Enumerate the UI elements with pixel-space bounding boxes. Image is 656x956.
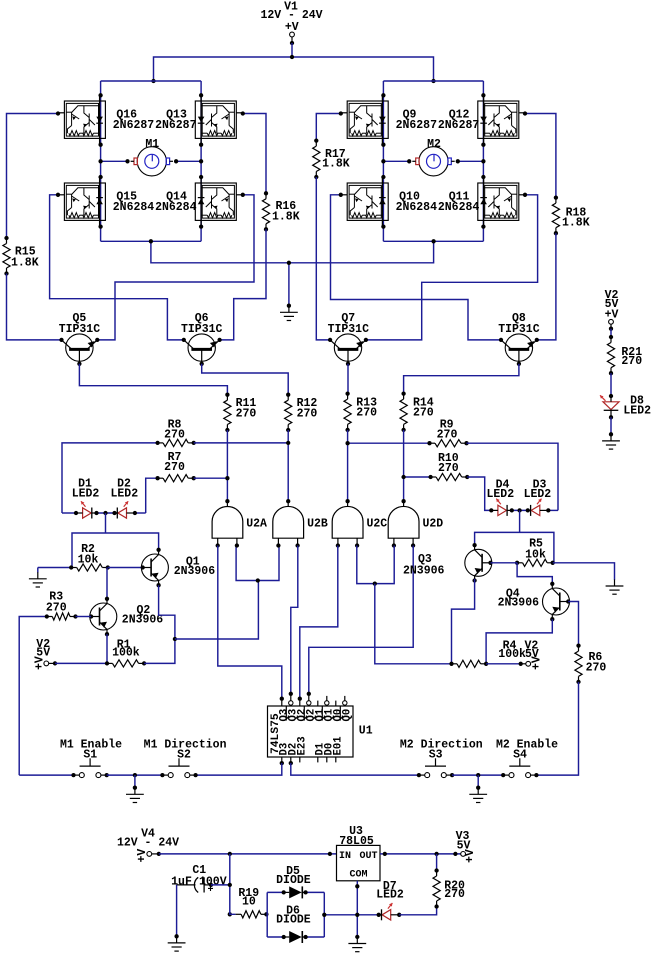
junction dots left rails — [98, 93, 203, 229]
svg-text:LED2: LED2 — [72, 488, 100, 501]
wire Q16 base to R15 — [7, 114, 59, 239]
resistor R16 1.8K — [262, 191, 299, 231]
wire diode right rail — [323, 892, 325, 937]
ground D8 — [602, 432, 620, 449]
wire U1 D2 to S3 — [291, 763, 419, 775]
wire U2D in2 to U1 Q2bar — [309, 546, 413, 694]
svg-text:U1: U1 — [359, 725, 373, 738]
wire U2C in2 / U2D in1 bus — [357, 546, 394, 584]
ground S1-S2 — [126, 775, 144, 802]
wire +V stem — [291, 43, 293, 57]
wire left bridge left rail — [100, 81, 102, 241]
wire Q10 base to Q8 collector — [331, 195, 502, 340]
svg-text:270: 270 — [356, 407, 377, 420]
junction Q14 base — [241, 193, 245, 197]
AND gate U2C — [332, 506, 363, 538]
svg-text:M1: M1 — [145, 138, 159, 151]
transistor Q7 TIP31C — [334, 334, 361, 361]
wire Q6 base to R12 — [202, 364, 289, 395]
ground COM — [348, 935, 366, 952]
wire D4-D3 link — [512, 509, 528, 511]
wire LED row right — [135, 512, 146, 514]
svg-text:S4: S4 — [513, 749, 527, 762]
junction Q16 base — [56, 111, 60, 115]
svg-text:U2A: U2A — [246, 518, 267, 531]
svg-text:2N6284: 2N6284 — [396, 201, 438, 214]
svg-text:OUT: OUT — [359, 851, 377, 862]
svg-text:E01: E01 — [333, 736, 345, 755]
wire R13 col to R9 — [348, 442, 430, 444]
svg-text:S1: S1 — [83, 749, 97, 762]
junction ground bus — [149, 239, 436, 265]
wire V2col to R21 — [610, 329, 612, 337]
resistor R2 10k — [69, 543, 110, 571]
svg-text:TIP31C: TIP31C — [59, 323, 101, 336]
junction S3-S4 ground — [476, 773, 480, 777]
junction C1 top — [228, 852, 332, 856]
wire R10 right drop to D4 — [467, 477, 491, 510]
wire Q7 base to R13 — [347, 364, 349, 394]
wire motor M2 left — [383, 160, 410, 162]
svg-text:1.8K: 1.8K — [272, 210, 300, 223]
wire R5 left to Q4 collector — [517, 563, 552, 584]
wire Q9 base to R17 — [316, 114, 341, 141]
transistor Q14 2N6284 — [195, 177, 243, 227]
wire LED mid stem right — [519, 510, 521, 532]
svg-text:LED2: LED2 — [376, 889, 404, 902]
power source V2 5V column — [605, 289, 619, 331]
wire top bus — [154, 57, 434, 81]
wire R12 to U2B out — [287, 430, 289, 501]
wire R18 to Q8 emitter — [537, 233, 556, 340]
wire Q4 base to R6 — [568, 602, 578, 646]
ground near R2 — [29, 568, 47, 588]
wire motor M1 right — [175, 160, 201, 162]
LED D8 — [600, 394, 651, 420]
resistor R3 270 — [45, 591, 78, 621]
junction Q12 base — [523, 111, 527, 115]
wire right bridge bottom rail — [383, 240, 483, 242]
wire R14 col to R10 — [404, 476, 431, 478]
switch S3 — [425, 765, 446, 767]
svg-text:2N6287: 2N6287 — [113, 119, 155, 132]
wire Q3 collector down — [452, 579, 475, 664]
svg-text:270: 270 — [621, 355, 642, 368]
svg-text:DIODE: DIODE — [276, 874, 311, 887]
diode D6 — [276, 904, 311, 943]
IC U1 74LS75 — [268, 706, 354, 757]
svg-text:2N6287: 2N6287 — [438, 119, 480, 132]
wire Q2 emitter down — [106, 634, 108, 663]
junction Q10 base — [339, 193, 343, 197]
svg-text:TIP31C: TIP31C — [328, 323, 370, 336]
svg-text:Q0: Q0 — [342, 709, 354, 722]
resistor R4 100k — [452, 639, 527, 667]
wire D5 row left — [267, 891, 284, 893]
wire S1 to ground node — [107, 774, 163, 776]
AND gate U2A — [212, 507, 243, 539]
wire R2 right to Q1 base — [108, 567, 143, 569]
wire R13 to U2C out — [347, 430, 349, 501]
wire R15 to Q5 collector — [7, 274, 62, 340]
svg-text:+V: +V — [464, 849, 477, 863]
svg-text:U2D: U2D — [423, 518, 444, 531]
wire R6 to S4 — [536, 682, 578, 775]
LED D2 — [110, 478, 138, 519]
power source V2 5V right — [519, 639, 544, 670]
junction R20 top — [383, 852, 458, 856]
power source V2 5V left — [34, 638, 58, 670]
LED D1 — [72, 478, 100, 519]
junction bus-rail — [151, 79, 435, 83]
svg-text:12V - 24V: 12V - 24V — [117, 837, 179, 850]
wire R7 right to R11 column — [194, 477, 228, 479]
svg-text:COM: COM — [349, 870, 367, 881]
junction U2C/U2D input bus — [373, 581, 377, 585]
ground near R5 — [606, 579, 624, 594]
junction Q15 base — [56, 193, 60, 197]
junction Q13 base — [241, 111, 245, 115]
junction R4 left — [449, 662, 453, 666]
wire V2 to R1 — [55, 662, 107, 664]
wire R20 feed — [436, 854, 438, 871]
svg-text:1.8K: 1.8K — [11, 257, 39, 270]
wire D3 right — [548, 509, 558, 511]
wire motor M1 left — [101, 160, 128, 162]
wire R14 to U2D out — [403, 430, 405, 501]
junction S1-S2 ground — [133, 773, 137, 777]
junction gate input bus — [256, 578, 260, 582]
junction dots right rails — [381, 93, 485, 229]
transistor Q13 2N6287 — [195, 95, 243, 145]
ground S3-S4 — [469, 775, 487, 802]
svg-text:270: 270 — [236, 407, 257, 420]
wire diode left rail — [266, 892, 268, 937]
wire Q13 base to R16 — [243, 114, 266, 194]
LED D7 — [376, 880, 404, 920]
svg-text:2N6287: 2N6287 — [396, 119, 438, 132]
wire S1 left feed — [19, 774, 73, 776]
junction R7-R11 — [225, 476, 229, 480]
svg-text:270: 270 — [413, 407, 434, 420]
wire D5 row right — [306, 891, 325, 893]
IC U3 78L05 — [337, 825, 381, 881]
wire R3 right to Q2 base — [76, 616, 92, 618]
svg-text:M2 Enable: M2 Enable — [496, 739, 558, 752]
svg-text:2N6284: 2N6284 — [155, 201, 197, 214]
switch S4 — [509, 765, 530, 767]
resistor R14 270 — [400, 391, 434, 432]
wire right bridge right rail — [482, 81, 484, 241]
svg-text:270: 270 — [438, 462, 459, 475]
wire D8 to ground — [610, 417, 612, 433]
resistor R21 270 — [607, 335, 642, 376]
wire Q6 emitter to R16 — [220, 229, 266, 340]
svg-text:270: 270 — [46, 601, 67, 614]
wire diode rail to D7 row — [324, 914, 378, 916]
wire D6 row right — [306, 936, 325, 938]
diode pin dots — [282, 890, 308, 939]
ground bridge — [280, 304, 298, 321]
transistor Q6 TIP31C — [188, 334, 215, 361]
junction R8-R12 — [286, 441, 290, 445]
svg-text:100k: 100k — [112, 647, 140, 660]
junction Q11 base — [523, 193, 527, 197]
AND gate U2D — [388, 506, 419, 538]
transistor Q12 2N6287 — [478, 95, 526, 145]
resistor R17 1.8K — [313, 138, 350, 179]
junction +V bus — [290, 55, 294, 59]
svg-text:270: 270 — [444, 888, 465, 901]
wire R5 right to ground — [553, 563, 615, 580]
transistor Q10 2N6284 — [341, 177, 389, 227]
transistor Q3 2N3906 — [465, 549, 492, 576]
wire motor M2 right — [458, 160, 484, 162]
svg-text:270: 270 — [164, 428, 185, 441]
svg-text:78L05: 78L05 — [339, 835, 374, 848]
transistor Q8 TIP31C — [505, 334, 532, 361]
svg-text:U2C: U2C — [367, 518, 388, 531]
svg-text:LED2: LED2 — [486, 488, 514, 501]
junction diode rail mid — [322, 913, 326, 917]
svg-text:270: 270 — [586, 661, 607, 674]
resistor R9 270 — [427, 419, 468, 447]
resistor R11 270 — [224, 393, 257, 433]
wire right bridge left rail — [382, 81, 384, 241]
svg-text:2N6287: 2N6287 — [155, 119, 197, 132]
wire S3 to ground node — [452, 774, 503, 776]
svg-text:100k: 100k — [498, 648, 526, 661]
svg-text:LED2: LED2 — [110, 488, 138, 501]
resistor R7 270 — [155, 451, 195, 482]
svg-text:2N6284: 2N6284 — [438, 201, 480, 214]
LED D4 — [486, 478, 514, 516]
wire Q8 base to R14 — [404, 364, 519, 394]
wire Q14 base to Q5 emitter — [97, 195, 254, 340]
svg-text:270: 270 — [437, 429, 458, 442]
wire R2 left — [38, 567, 71, 569]
D7 dots — [377, 913, 402, 917]
wire ground stub — [288, 263, 290, 305]
svg-text:2N3906: 2N3906 — [498, 597, 540, 610]
svg-text:10k: 10k — [525, 548, 546, 561]
wire mid row y532 right — [475, 532, 554, 562]
wire bridge ground bus — [151, 241, 434, 262]
resistor R18 1.8K — [552, 195, 589, 235]
svg-text:2N3906: 2N3906 — [403, 565, 445, 578]
svg-text:E23: E23 — [297, 736, 309, 755]
transistor Q2 2N3906 — [90, 603, 117, 630]
resistor R12 270 — [285, 393, 318, 433]
junction R14-R10 — [401, 475, 405, 479]
ground C1 — [168, 934, 186, 951]
switch S1 — [80, 765, 101, 767]
svg-text:2N3906: 2N3906 — [174, 565, 216, 578]
wire Q2 collector up — [106, 568, 108, 599]
junction Q1 bus — [173, 637, 177, 641]
wire LED mid stem — [105, 513, 107, 533]
resistor R19 10 — [236, 887, 269, 918]
resistor R15 1.8K — [3, 236, 39, 276]
transistor Q1 2N3906 — [141, 554, 168, 581]
wire LED row left — [62, 512, 76, 514]
wire Q11 base to Q7 emitter — [366, 195, 538, 340]
junction Q9 base — [339, 111, 343, 115]
transistor Q5 TIP31C — [66, 334, 93, 361]
wire U2A in1 to U1 Q3 — [218, 546, 282, 699]
U1 pin dots — [280, 692, 311, 766]
power source V1 12V-24V — [260, 1, 322, 46]
svg-text:2N6284: 2N6284 — [113, 201, 155, 214]
capacitor C1 1uF 100V — [171, 864, 227, 896]
junction C1 — [228, 883, 232, 887]
wire U1 D3 to S2 — [196, 763, 282, 775]
wire U2A in2 down — [236, 546, 279, 581]
LED D3 — [524, 478, 552, 516]
switch S2 — [169, 765, 190, 767]
motor M2 — [419, 147, 448, 176]
junction R13-R9 — [345, 441, 349, 445]
wire Q1 collector jog — [159, 585, 175, 639]
wire Q12 base to R18 — [525, 114, 556, 198]
wire mid row y533 — [72, 533, 159, 568]
transistor Q16 2N6287 — [58, 95, 106, 145]
motor M1 — [137, 147, 166, 176]
wire C1 right to column — [211, 884, 230, 886]
wire R11 to U2A out — [226, 430, 228, 501]
wire U3 OUT to V3 — [380, 853, 461, 855]
wire R21 to D8 — [610, 373, 612, 396]
wire R3 left to S1 column — [19, 617, 47, 776]
wire D6 row left — [267, 936, 284, 938]
transistor Q4 2N3906 — [543, 588, 570, 615]
svg-text:LED2: LED2 — [524, 488, 552, 501]
wire R9 right drop to D3 — [467, 443, 559, 510]
wire C1 column — [230, 854, 236, 914]
wire gate bus down to R4 row — [375, 584, 452, 664]
wire Q3 base to R5 — [491, 562, 518, 564]
resistor R10 270 — [428, 452, 469, 481]
svg-text:TIP31C: TIP31C — [498, 323, 540, 336]
wire R7 left drop — [146, 478, 158, 513]
svg-text:TIP31C: TIP31C — [181, 323, 223, 336]
wire R8 right to R12 column — [194, 442, 289, 444]
diode D5 — [276, 865, 311, 899]
svg-text:1.8K: 1.8K — [562, 217, 590, 230]
wire V4 to U3 IN — [159, 853, 337, 855]
svg-text:2N3906: 2N3906 — [122, 613, 164, 626]
wire R4 to V2 — [486, 663, 521, 665]
svg-text:S3: S3 — [429, 749, 443, 762]
wire R19 to diode rail — [265, 913, 268, 915]
wire Q15 base to Q6 collector — [50, 195, 184, 340]
wire U2C in1 to U1 Q2 — [300, 546, 338, 699]
wire R17 to Q7 collector — [316, 177, 330, 340]
resistor R6 270 — [575, 643, 607, 684]
wire D7 to R20 — [399, 907, 436, 915]
svg-text:U2B: U2B — [307, 518, 328, 531]
resistor R1 100k — [105, 638, 146, 667]
wire C1 left to ground — [176, 885, 178, 935]
wire U2B in2 to U1 Q3bar — [291, 546, 298, 694]
power source V4 12V-24V — [117, 827, 179, 862]
transistor Q15 2N6284 — [58, 177, 106, 227]
resistor R5 10k — [515, 537, 555, 566]
wire left bridge bottom rail — [101, 240, 202, 242]
svg-text:1uF: 1uF — [171, 875, 192, 888]
svg-text:LED2: LED2 — [623, 404, 651, 417]
LED row right dots — [489, 508, 550, 512]
wire left bridge right rail — [200, 81, 202, 241]
power source V3 5V — [456, 830, 477, 863]
svg-text:270: 270 — [164, 461, 185, 474]
svg-text:+V: +V — [531, 656, 544, 670]
svg-text:10k: 10k — [78, 553, 99, 566]
wire Q1 bus to gate inputs — [175, 581, 259, 640]
wire D1-D2 link — [97, 512, 115, 514]
svg-text:M2: M2 — [427, 138, 441, 151]
resistor R13 270 — [344, 391, 377, 432]
LED row dots — [74, 511, 137, 515]
wire right bridge top rail — [383, 80, 483, 82]
transistor Q11 2N6284 — [478, 177, 526, 227]
svg-text:DIODE: DIODE — [276, 914, 311, 927]
wire Q5 base to R11 — [79, 364, 227, 395]
wire left bridge top rail — [101, 80, 202, 82]
junction COM — [355, 884, 359, 917]
resistor R8 270 — [155, 418, 195, 446]
svg-text:1.8K: 1.8K — [322, 157, 350, 170]
svg-text:10: 10 — [242, 896, 256, 909]
svg-text:S2: S2 — [177, 749, 191, 762]
R19 left pin — [228, 912, 232, 916]
AND gate U2B — [273, 506, 304, 538]
transistor Q9 2N6287 — [341, 95, 389, 145]
wire R8 left drop — [62, 443, 158, 513]
wire R1 right up to Q1 bus — [144, 639, 175, 663]
resistor R20 270 — [433, 868, 465, 908]
svg-text:IN: IN — [339, 851, 351, 862]
wire Q4 emitter down — [486, 619, 552, 664]
svg-text:270: 270 — [297, 407, 318, 420]
wire U3 COM down — [356, 881, 358, 937]
